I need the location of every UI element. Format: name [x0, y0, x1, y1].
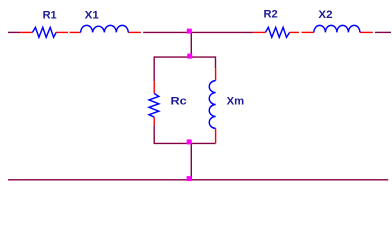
svg-text:R1: R1: [43, 9, 57, 21]
svg-text:Xm: Xm: [227, 95, 245, 107]
svg-text:X2: X2: [318, 9, 332, 21]
svg-text:X1: X1: [85, 9, 99, 21]
svg-text:Rc: Rc: [171, 96, 187, 108]
svg-text:R2: R2: [264, 9, 278, 21]
